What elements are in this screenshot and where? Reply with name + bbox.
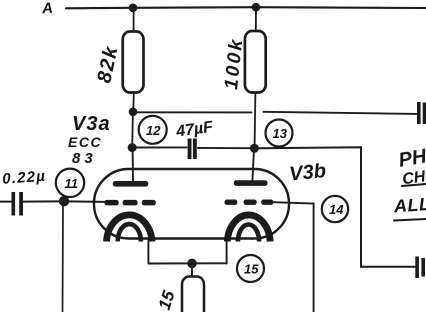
svg-text:13: 13 xyxy=(273,126,288,141)
resistor 82k body xyxy=(123,32,144,93)
junction dot top of R 100k xyxy=(252,3,261,12)
wire HT rail xyxy=(66,7,426,8)
junction dot node 12 top xyxy=(129,108,138,117)
svg-text:14: 14 xyxy=(329,202,344,217)
resistor cathode body xyxy=(182,277,204,312)
capacitor bottom-right plate 2 xyxy=(421,258,425,277)
circle ref 14 xyxy=(322,196,348,222)
wire 82k bottom lead xyxy=(132,93,135,112)
grid dash 2 V3b xyxy=(244,200,257,205)
junction dot grid node 11 xyxy=(59,196,69,206)
junction dot left of 47u line xyxy=(128,143,137,152)
svg-text:15: 15 xyxy=(244,262,259,277)
cathode lead V3a down xyxy=(147,239,149,264)
anode lead V3b xyxy=(252,149,254,181)
underline Ch xyxy=(402,184,426,186)
wire cathode bus xyxy=(148,262,226,264)
cathode outer arch V3b xyxy=(227,215,270,242)
cathode lead V3b down xyxy=(226,239,228,264)
wire 47u line left xyxy=(136,146,187,148)
capacitor 0.22u input: wire from edge xyxy=(0,201,11,203)
junction dot node 13 xyxy=(250,144,259,153)
anode plate V3a xyxy=(113,181,149,187)
capacitor 47uF plate 1 xyxy=(188,139,192,160)
wire cap to grid node xyxy=(24,200,59,202)
wire anode rail left segment xyxy=(131,111,252,113)
wire 82k top lead xyxy=(133,8,135,32)
wire grid node down to bottom edge xyxy=(62,206,65,312)
anode lead V3a xyxy=(132,148,134,181)
grid lead V3b to node 14 wire xyxy=(274,202,314,312)
tube envelope V3 xyxy=(94,169,289,239)
grid dash 2 V3a xyxy=(123,200,138,206)
circle ref 13 xyxy=(266,120,293,147)
grid dash 1 V3a xyxy=(105,200,119,206)
wire cathode node to resistor xyxy=(191,264,193,277)
cathode inner arch V3a xyxy=(118,224,141,241)
svg-text:83: 83 xyxy=(72,150,97,167)
capacitor 47uF plate 2 xyxy=(193,139,197,160)
svg-text:V3a: V3a xyxy=(72,113,111,135)
grid dash 3 V3b xyxy=(261,200,273,205)
svg-text:V3b: V3b xyxy=(288,160,327,186)
svg-text:A: A xyxy=(40,0,53,17)
circle ref 15 xyxy=(237,255,264,282)
wire 100k bottom lead xyxy=(254,93,257,145)
capacitor top-right plate 1 xyxy=(417,102,421,124)
resistor 100k body xyxy=(245,31,266,93)
wire anode V3b to bottom-right cap xyxy=(259,147,416,267)
capacitor bottom-right plate 1 xyxy=(415,257,419,279)
capacitor 0.22u plate 2 xyxy=(19,192,23,216)
svg-text:12: 12 xyxy=(146,123,161,138)
anode plate V3b xyxy=(234,180,268,186)
svg-text:ECC: ECC xyxy=(68,134,102,150)
svg-text:0.22µ: 0.22µ xyxy=(2,168,47,188)
wire anode rail right segment to output cap xyxy=(264,112,418,114)
circle ref 12 xyxy=(139,116,167,144)
junction dot cathode node 15 xyxy=(187,259,197,269)
grid dash 1 V3b xyxy=(225,200,238,205)
cathode inner arch V3b xyxy=(238,225,259,242)
wire node12 to node on 47u line xyxy=(131,112,134,147)
cathode outer arch V3a xyxy=(107,215,153,242)
junction dot top of R 82k xyxy=(129,4,138,13)
svg-text:11: 11 xyxy=(65,176,79,191)
wire grid node to grid of V3a xyxy=(68,200,105,203)
grid dash 3 V3a xyxy=(142,200,156,206)
wire 47u line right xyxy=(198,147,250,149)
capacitor 0.22u plate 1 xyxy=(12,192,16,216)
capacitor top-right plate 2 xyxy=(423,103,426,125)
svg-text:ALL: ALL xyxy=(392,194,426,217)
wire 100k top lead xyxy=(255,8,257,32)
underline ALL xyxy=(394,219,426,221)
circle ref 11 xyxy=(56,169,84,197)
